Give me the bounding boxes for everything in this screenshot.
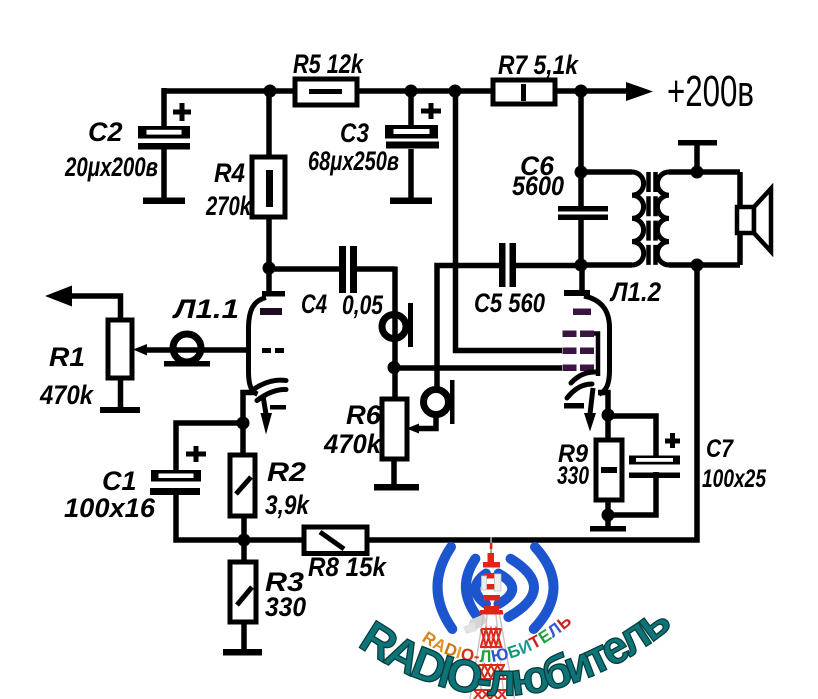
svg-text:R1: R1	[49, 342, 85, 372]
svg-text:C2: C2	[88, 117, 123, 147]
svg-text:C7: C7	[706, 435, 734, 463]
svg-text:0,05: 0,05	[342, 290, 384, 320]
svg-text:C3: C3	[340, 118, 369, 148]
svg-text:470k: 470k	[323, 429, 383, 459]
svg-text:330: 330	[265, 592, 306, 622]
svg-text:Л1.2: Л1.2	[609, 277, 661, 307]
svg-text:R8 15k: R8 15k	[308, 552, 388, 582]
svg-text:270k: 270k	[205, 191, 252, 221]
svg-text:R7 5,1k: R7 5,1k	[498, 50, 580, 80]
svg-text:100x25: 100x25	[702, 465, 767, 493]
svg-text:C4: C4	[301, 289, 327, 319]
svg-text:68μx250в: 68μx250в	[308, 146, 399, 176]
svg-text:5600: 5600	[512, 171, 564, 201]
svg-text:470k: 470k	[39, 380, 95, 410]
svg-text:R2: R2	[267, 457, 306, 487]
svg-text:100x16: 100x16	[64, 493, 156, 523]
svg-text:C5 560: C5 560	[474, 288, 545, 318]
svg-text:R4: R4	[214, 158, 245, 188]
svg-text:+200в: +200в	[667, 67, 754, 116]
svg-text:R6: R6	[346, 400, 382, 430]
svg-text:3,9k: 3,9k	[265, 490, 311, 520]
svg-text:330: 330	[557, 462, 589, 490]
svg-text:R5 12k: R5 12k	[293, 49, 365, 79]
svg-text:20μx200в: 20μx200в	[64, 152, 158, 182]
svg-text:C1: C1	[102, 466, 137, 496]
svg-text:Л1.1: Л1.1	[172, 294, 239, 324]
